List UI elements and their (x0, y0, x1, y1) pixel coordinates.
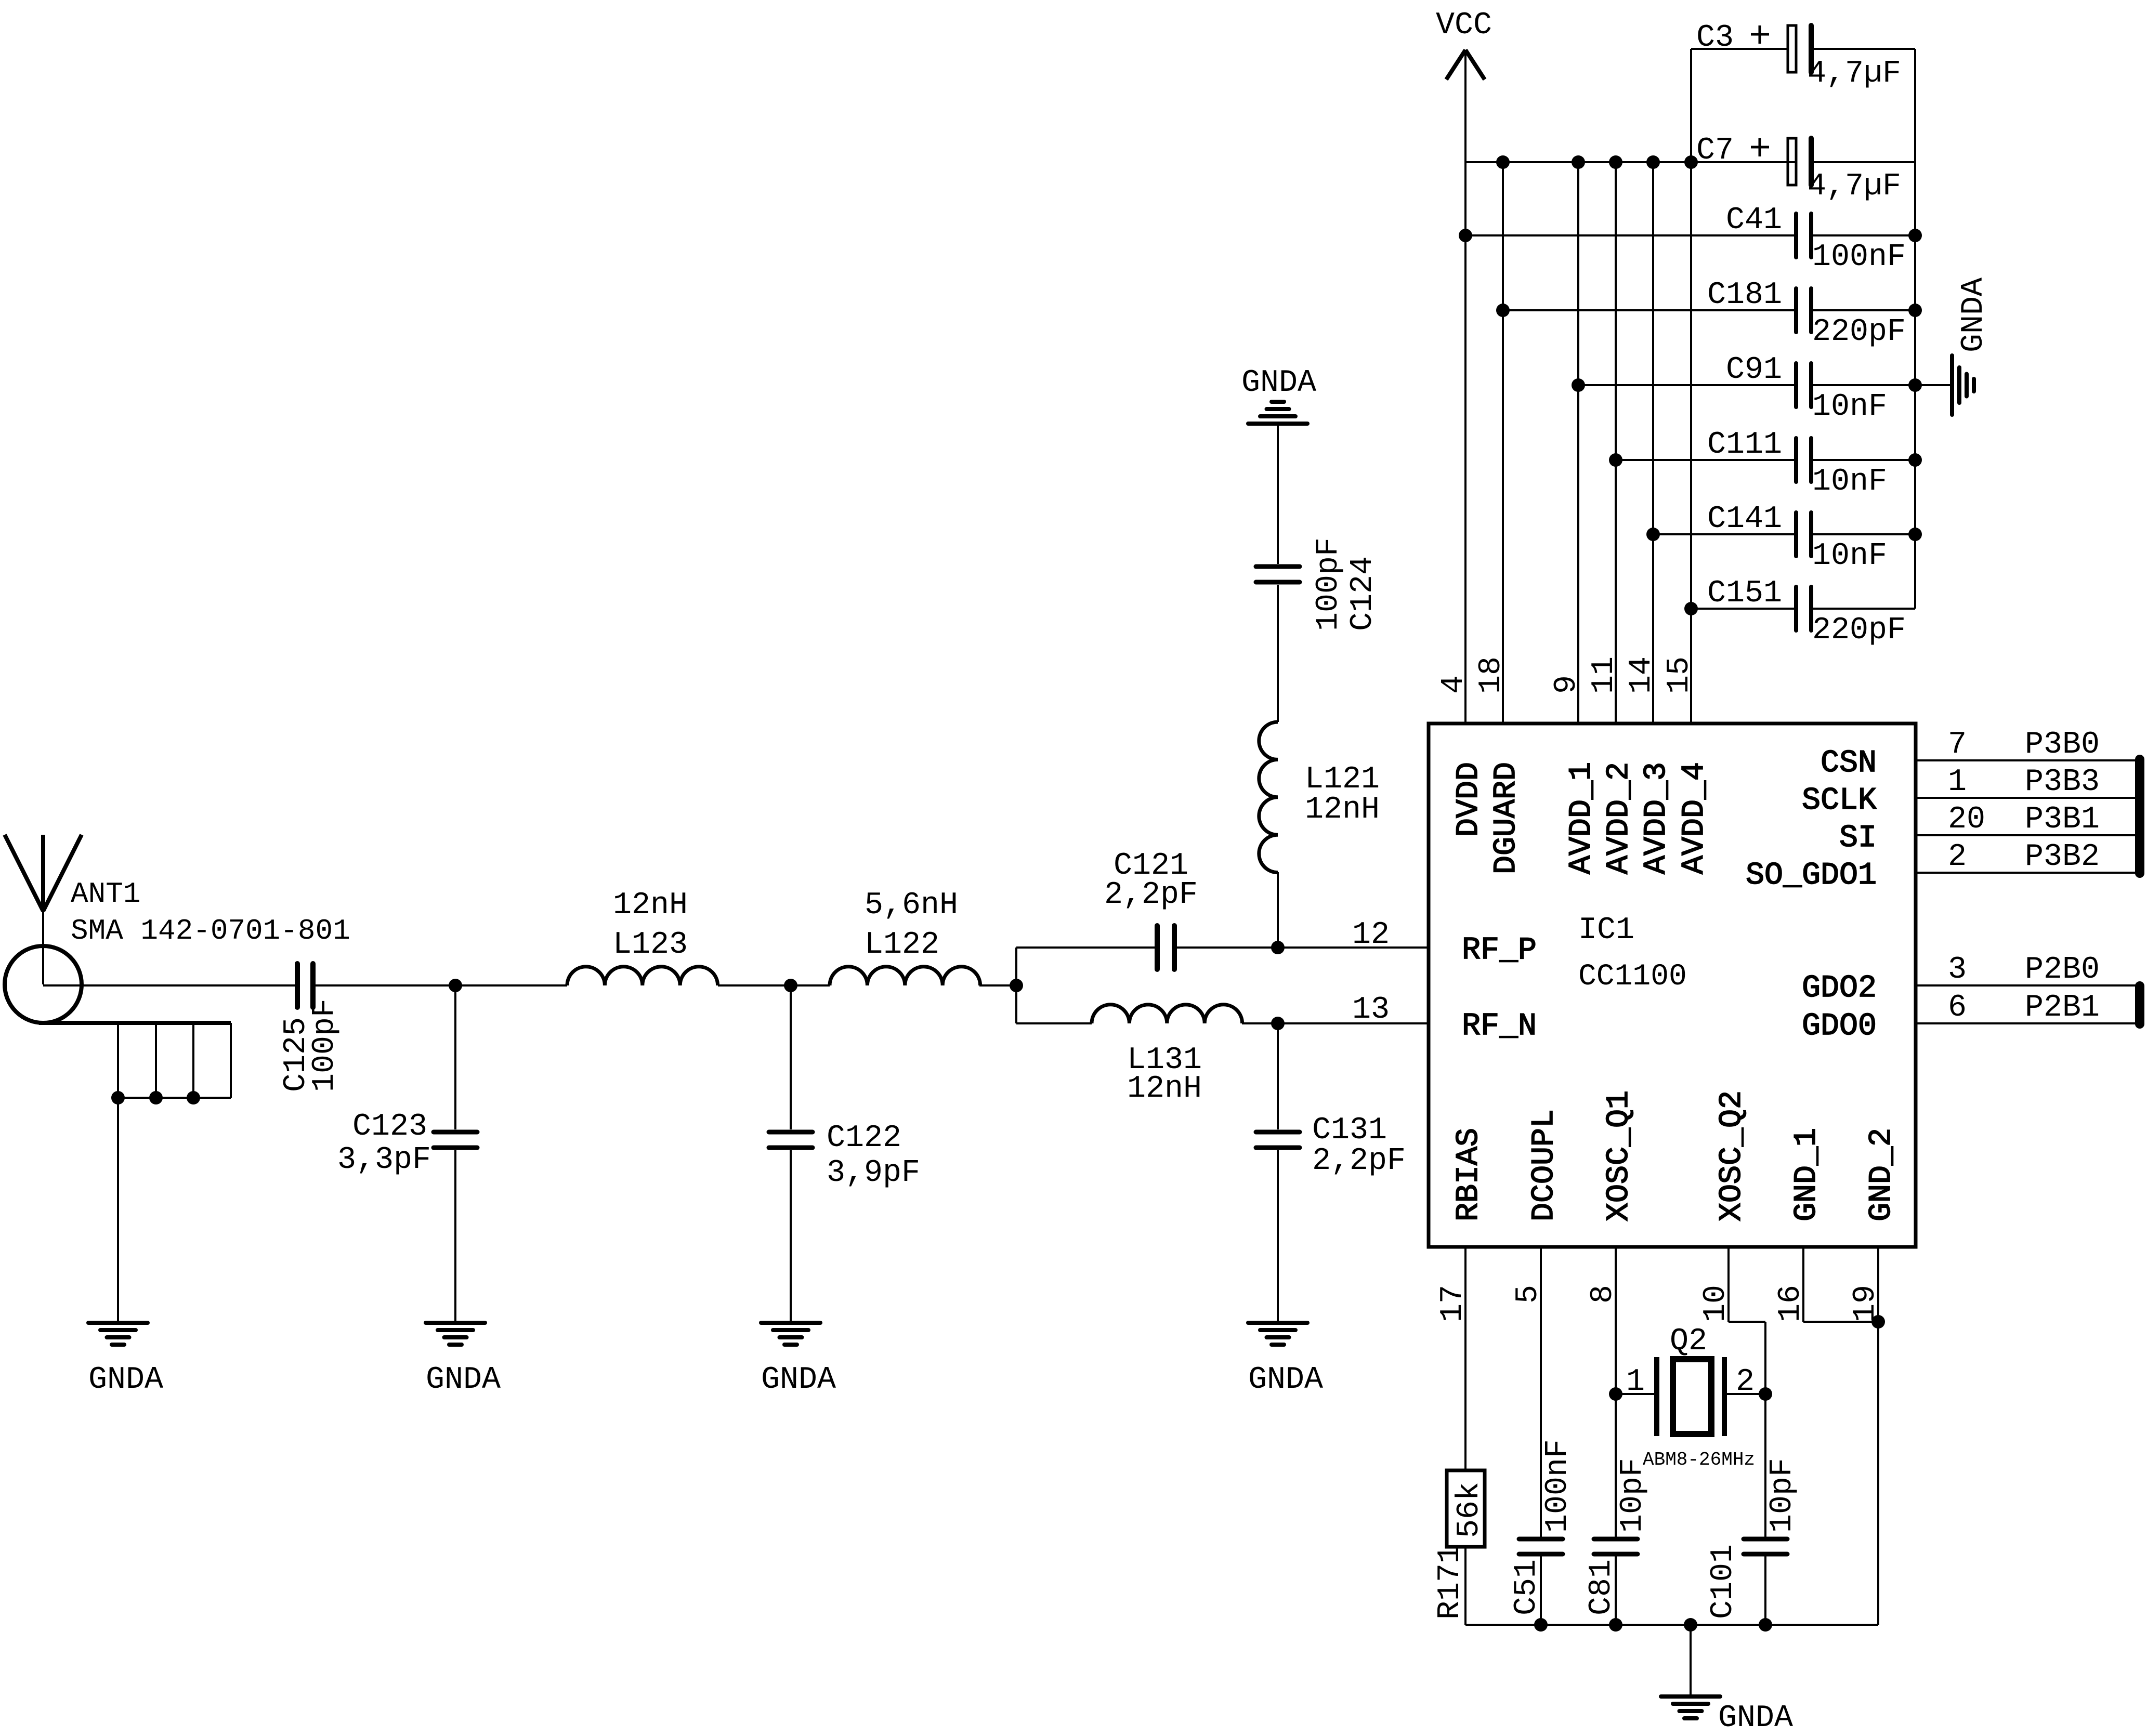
capacitor C101 10pF (1744, 1537, 1787, 1542)
svg-text:20: 20 (1948, 802, 1985, 837)
svg-text:100nF: 100nF (1812, 240, 1906, 275)
svg-text:3,3pF: 3,3pF (337, 1142, 431, 1178)
svg-text:RF_N: RF_N (1462, 1009, 1537, 1044)
svg-text:2,2pF: 2,2pF (1312, 1143, 1406, 1179)
svg-text:P3B3: P3B3 (2025, 765, 2100, 800)
svg-text:P2B0: P2B0 (2025, 952, 2100, 988)
svg-text:C41: C41 (1726, 203, 1782, 238)
svg-text:P2B1: P2B1 (2025, 990, 2100, 1025)
node C122 tap dot (784, 979, 797, 992)
svg-text:11: 11 (1587, 656, 1622, 694)
svg-text:C81: C81 (1584, 1559, 1619, 1615)
svg-text:IC1: IC1 (1578, 913, 1634, 948)
svg-text:6: 6 (1948, 990, 1967, 1025)
svg-text:P3B2: P3B2 (2025, 839, 2100, 875)
svg-text:10nF: 10nF (1812, 464, 1887, 499)
svg-text:AVDD_3: AVDD_3 (1639, 762, 1674, 874)
svg-text:XOSC_Q2: XOSC_Q2 (1714, 1090, 1750, 1221)
svg-text:14: 14 (1624, 656, 1659, 694)
wire C181 row (1503, 309, 1796, 311)
svg-text:GDO2: GDO2 (1802, 971, 1877, 1006)
svg-text:C111: C111 (1707, 427, 1782, 463)
svg-text:220pF: 220pF (1812, 613, 1906, 648)
svg-text:5,6nH: 5,6nH (865, 888, 958, 923)
ground GNDA (antenna) (88, 1321, 148, 1325)
svg-text:SO_GDO1: SO_GDO1 (1746, 858, 1877, 893)
wire C41 row (1465, 234, 1796, 236)
wire pin 9 line (1577, 162, 1579, 724)
svg-text:GDO0: GDO0 (1802, 1009, 1877, 1044)
svg-text:GNDA: GNDA (1241, 365, 1316, 401)
svg-text:Q2: Q2 (1670, 1324, 1707, 1359)
node crystal pin 2 dot (1759, 1387, 1772, 1401)
node C181 right dot (1908, 304, 1922, 317)
capacitor C122 3,9pF (790, 985, 792, 1129)
capacitor C81 10pF (1594, 1537, 1638, 1542)
wire antenna to C125 (43, 984, 295, 987)
svg-text:1: 1 (1626, 1364, 1645, 1400)
svg-text:C124: C124 (1345, 556, 1381, 631)
wire bus to ground (1690, 1625, 1692, 1695)
svg-text:P3B0: P3B0 (2025, 727, 2100, 762)
wire C141 row (1653, 533, 1796, 535)
svg-text:7: 7 (1948, 727, 1967, 762)
capacitor C151 220pF (1794, 587, 1798, 630)
svg-text:GNDA: GNDA (1718, 1701, 1793, 1736)
IC IC1 CC1100 body (1429, 724, 1916, 1247)
node C141 tap dot (1646, 528, 1660, 541)
ground GNDA (right) (1950, 356, 1954, 415)
svg-text:10nF: 10nF (1812, 389, 1887, 425)
svg-text:SMA 142-0701-801: SMA 142-0701-801 (71, 914, 350, 948)
inductor L122 5,6nH (830, 967, 980, 985)
capacitor C124 100pF (1256, 564, 1300, 569)
svg-text:GNDA: GNDA (761, 1362, 836, 1398)
svg-text:C91: C91 (1726, 352, 1782, 388)
ground GNDA (bottom) (1661, 1694, 1720, 1699)
capacitor C3 4,7uF electrolytic (1788, 25, 1796, 72)
svg-text:10pF: 10pF (1765, 1458, 1800, 1533)
node L121 junction dot (1271, 941, 1285, 954)
wire pin 18 line (1502, 162, 1504, 724)
svg-text:SI: SI (1839, 821, 1877, 856)
svg-text:1: 1 (1948, 765, 1967, 800)
node C131 junction dot (1271, 1017, 1285, 1030)
node C91 right dot (1908, 378, 1922, 392)
inductor L121 12nH (1259, 722, 1278, 873)
wire right collector (1914, 49, 1916, 609)
wire pin 17 to R171 (1464, 1247, 1467, 1470)
svg-text:100pF: 100pF (307, 998, 343, 1092)
svg-text:RF_P: RF_P (1462, 933, 1537, 968)
svg-text:DGUARD: DGUARD (1489, 762, 1524, 874)
node C111 right dot (1908, 453, 1922, 467)
wire L121 to C124 (1277, 585, 1279, 722)
inductor L123 12nH (567, 967, 718, 985)
wire pin 7 to connector (1916, 759, 2136, 761)
svg-text:SCLK: SCLK (1802, 783, 1877, 819)
capacitor C125 100pF (295, 964, 300, 1007)
svg-text:AVDD_2: AVDD_2 (1602, 762, 1637, 874)
node RF split junction (1010, 979, 1023, 992)
svg-text:P3B1: P3B1 (2025, 802, 2100, 837)
wire L121 to RF_P (1277, 872, 1279, 948)
svg-text:GNDA: GNDA (1956, 278, 1992, 352)
svg-text:GNDA: GNDA (88, 1362, 163, 1398)
wire pin 3 to connector (1916, 984, 2136, 987)
wire split to C121 (1016, 946, 1156, 949)
svg-text:C7: C7 (1696, 133, 1734, 168)
svg-text:C3: C3 (1696, 20, 1734, 56)
wire C125 to L123 (316, 984, 567, 987)
svg-text:12nH: 12nH (1305, 792, 1380, 827)
resistor R171 56k (1447, 1470, 1485, 1547)
capacitor C51 100nF (1519, 1537, 1563, 1542)
svg-text:C101: C101 (1706, 1544, 1741, 1619)
node C111 tap dot (1609, 453, 1622, 467)
capacitor C121 2,2pF (1155, 926, 1160, 969)
svg-text:2: 2 (1948, 839, 1967, 875)
wire pin 11 line (1615, 162, 1617, 724)
svg-text:13: 13 (1352, 992, 1390, 1028)
wire split vertical (1015, 948, 1017, 1023)
svg-text:L122: L122 (865, 927, 939, 963)
wire to right ground (1915, 384, 1951, 386)
wire L131 to IC pin 13 (1242, 1022, 1429, 1024)
wire split to L131 (1016, 1022, 1092, 1024)
svg-text:18: 18 (1474, 656, 1509, 694)
svg-text:GND_2: GND_2 (1864, 1128, 1900, 1221)
svg-text:CSN: CSN (1821, 746, 1877, 781)
svg-text:GNDA: GNDA (426, 1362, 501, 1398)
svg-text:56k: 56k (1452, 1482, 1487, 1538)
svg-text:L123: L123 (613, 927, 688, 963)
svg-text:4: 4 (1436, 675, 1472, 694)
svg-text:C181: C181 (1707, 278, 1782, 313)
svg-text:CC1100: CC1100 (1578, 960, 1687, 994)
ground GNDA (top) (1248, 422, 1307, 426)
wire C3 riser (1690, 49, 1692, 162)
wire pin 19 to bus (1877, 1247, 1879, 1625)
inductor L131 12nH (1092, 1005, 1242, 1023)
wire pin 1 to connector (1916, 797, 2136, 799)
capacitor C123 3,3pF (454, 985, 456, 1129)
svg-text:4,7µF: 4,7µF (1808, 56, 1901, 91)
node shield junction dots (111, 1091, 125, 1104)
svg-text:AVDD_4: AVDD_4 (1677, 762, 1712, 874)
wire pin 10 to crystal/C101 (1727, 1247, 1730, 1322)
wire C121 to IC pin 12 (1176, 946, 1429, 949)
svg-text:3,9pF: 3,9pF (827, 1155, 920, 1191)
wire C124 to ground (1277, 425, 1279, 564)
svg-text:XOSC_Q1: XOSC_Q1 (1602, 1090, 1637, 1221)
svg-text:220pF: 220pF (1812, 314, 1906, 350)
wire C111 row (1616, 459, 1796, 461)
capacitor C111 10nF (1794, 438, 1798, 482)
wire C91 row (1578, 384, 1796, 386)
node C91 tap dot (1572, 378, 1585, 392)
node crystal pin 1 dot (1609, 1387, 1622, 1401)
wire VCC to IC pin 4 (1464, 52, 1467, 724)
node rail dots (1496, 155, 1510, 169)
svg-text:C141: C141 (1707, 502, 1782, 537)
svg-text:10nF: 10nF (1812, 538, 1887, 574)
svg-text:12nH: 12nH (1127, 1071, 1202, 1107)
connector bar P2B (2135, 986, 2144, 1024)
wire antenna to ground (117, 1098, 119, 1323)
svg-text:12: 12 (1352, 917, 1390, 953)
ground GNDA (C123) (426, 1321, 485, 1325)
wire pin 2 to connector (1916, 872, 2136, 874)
crystal Q2 ABM8-26MHz (1616, 1393, 1654, 1395)
svg-text:GNDA: GNDA (1248, 1362, 1323, 1398)
wire pin 8 to C81 (1615, 1247, 1617, 1537)
svg-text:100nF: 100nF (1540, 1439, 1576, 1533)
svg-text:C122: C122 (827, 1121, 901, 1156)
wire pin 16 jog (1802, 1247, 1804, 1322)
svg-text:GND_1: GND_1 (1789, 1128, 1825, 1221)
node C41 tap dot (1459, 229, 1472, 242)
connector bar P3B (2135, 759, 2144, 873)
wire VCC rail (1465, 161, 1796, 163)
capacitor C141 10nF (1794, 512, 1798, 556)
wire pin 20 to connector (1916, 834, 2136, 836)
svg-text:RBIAS: RBIAS (1451, 1128, 1487, 1221)
wire R171 to bus (1464, 1547, 1467, 1625)
wire C151 row (1691, 608, 1796, 610)
node pin16/19 dot (1871, 1315, 1885, 1329)
wire pin 14 line (1652, 162, 1654, 724)
svg-text:C131: C131 (1312, 1113, 1387, 1148)
svg-text:4,7µF: 4,7µF (1808, 169, 1901, 204)
wire bottom bus (1465, 1624, 1878, 1626)
node bus dots (1534, 1618, 1548, 1632)
wire pin 15 line (1690, 162, 1692, 724)
svg-text:12nH: 12nH (613, 888, 688, 923)
svg-text:2: 2 (1736, 1364, 1755, 1400)
svg-text:ANT1: ANT1 (71, 877, 140, 911)
svg-text:3: 3 (1948, 952, 1967, 988)
wire L122 to split node (979, 984, 1016, 987)
svg-text:AVDD_1: AVDD_1 (1564, 762, 1600, 874)
capacitor C7 4,7uF electrolytic (1788, 138, 1796, 185)
svg-text:R171: R171 (1433, 1545, 1468, 1620)
node C181 tap dot (1496, 304, 1510, 317)
node C151 tap dot (1684, 602, 1698, 615)
svg-text:C151: C151 (1707, 576, 1782, 611)
ground GNDA (C131) (1248, 1321, 1307, 1325)
svg-text:2,2pF: 2,2pF (1104, 877, 1198, 913)
svg-text:DCOUPL: DCOUPL (1527, 1109, 1562, 1221)
wire L123 to L122 (718, 984, 830, 987)
svg-text:ABM8-26MHz: ABM8-26MHz (1643, 1449, 1755, 1470)
antenna ANT1 symbol (5, 835, 43, 911)
svg-text:15: 15 (1662, 656, 1697, 694)
capacitor C181 220pF (1794, 288, 1798, 332)
node C141 right dot (1908, 528, 1922, 541)
ground GNDA (C122) (761, 1321, 820, 1325)
power VCC symbol (1446, 50, 1465, 80)
svg-text:C51: C51 (1509, 1559, 1544, 1615)
capacitor C41 100nF (1794, 214, 1798, 257)
wire pin 5 to C51 (1540, 1247, 1542, 1537)
svg-text:VCC: VCC (1436, 8, 1492, 43)
node C41 right dot (1908, 229, 1922, 242)
svg-text:9: 9 (1549, 675, 1585, 694)
node C123 tap dot (449, 979, 462, 992)
wire pin 6 to connector (1916, 1022, 2136, 1024)
svg-text:100pF: 100pF (1311, 537, 1346, 631)
capacitor C91 10nF (1794, 363, 1798, 407)
capacitor C131 2,2pF (1277, 1023, 1279, 1129)
svg-text:C123: C123 (352, 1109, 427, 1145)
SMA shield structure (39, 1021, 231, 1025)
svg-text:DVDD: DVDD (1451, 762, 1487, 837)
